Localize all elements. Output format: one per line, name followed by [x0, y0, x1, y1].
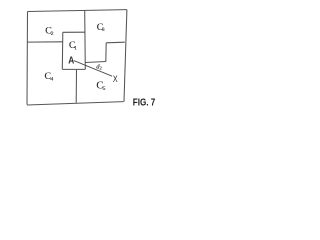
- svg-text:2: 2: [100, 65, 103, 70]
- svg-text:1: 1: [74, 46, 77, 52]
- cell C1 left edge: [61, 32, 64, 69]
- cell C1 bottom edge: [62, 68, 85, 70]
- outer border right edge: [124, 10, 127, 102]
- outer border left edge: [26, 12, 29, 105]
- cell C2 bottom edge: [27, 41, 63, 43]
- cell C5 right step vertical: [105, 43, 107, 62]
- cell C5 top edge: [85, 62, 105, 63]
- svg-text:3: 3: [102, 27, 105, 33]
- svg-text:X: X: [113, 74, 118, 84]
- cell C2/C3 divider vertical: [84, 10, 87, 69]
- svg-text:5: 5: [103, 86, 106, 92]
- outer border top edge: [28, 10, 127, 12]
- outer border bottom edge: [27, 102, 124, 105]
- line d2 from A to X: [74, 61, 112, 77]
- svg-text:A: A: [68, 56, 74, 67]
- svg-text:FIG. 7: FIG. 7: [133, 98, 156, 109]
- svg-text:2: 2: [51, 31, 54, 37]
- svg-text:4: 4: [50, 76, 53, 82]
- cell C1 top edge: [63, 31, 85, 33]
- cell C4/C5 divider vertical: [75, 69, 77, 102]
- cell C3 bottom edge: [106, 41, 125, 44]
